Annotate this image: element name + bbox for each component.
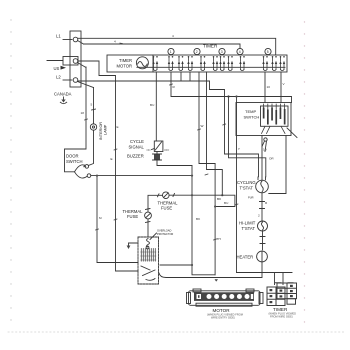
contact below temp xyxy=(264,138,267,141)
svg-text:DOOR: DOOR xyxy=(66,154,79,159)
terminal N xyxy=(73,59,78,64)
svg-text:1: 1 xyxy=(170,50,172,54)
wire mid drop b xyxy=(207,72,223,195)
svg-text:HEATER: HEATER xyxy=(237,255,254,260)
wire timer drop to temp loop xyxy=(171,72,292,103)
thermal fuse 1 xyxy=(145,212,152,219)
svg-text:FROM WIRE SIDE): FROM WIRE SIDE) xyxy=(270,314,293,318)
svg-text:PUR: PUR xyxy=(248,196,254,200)
svg-text:Y: Y xyxy=(238,147,240,151)
door switch S1 xyxy=(85,165,89,169)
wire tf1 up xyxy=(148,195,163,212)
wire N to door switch xyxy=(65,67,87,172)
svg-text:HI-LIMIT: HI-LIMIT xyxy=(239,221,256,226)
cycling tstat xyxy=(256,180,269,193)
terminal L1 xyxy=(73,37,78,42)
timer connector plug xyxy=(267,283,297,306)
svg-text:4: 4 xyxy=(172,34,174,38)
svg-text:SIGNAL: SIGNAL xyxy=(129,145,145,150)
svg-text:WIRE ENTRY SIDE): WIRE ENTRY SIDE) xyxy=(211,315,235,319)
svg-text:PROTECTOR: PROTECTOR xyxy=(157,232,173,236)
svg-text:FUSE: FUSE xyxy=(127,214,138,219)
ground xyxy=(129,243,139,246)
svg-text:T'STAT: T'STAT xyxy=(242,226,256,231)
terminal L2 xyxy=(73,78,78,83)
svg-text:CANADA: CANADA xyxy=(54,92,72,97)
wire mid riser xyxy=(214,164,216,275)
svg-text:L1: L1 xyxy=(56,34,61,39)
svg-text:TH: TH xyxy=(217,237,221,241)
svg-text:OFF: OFF xyxy=(164,148,170,152)
wire L1 lead xyxy=(63,39,72,41)
wire motor right riser xyxy=(192,166,215,275)
wire mid drop a xyxy=(199,72,215,164)
motor box dashed xyxy=(138,237,159,284)
svg-text:10: 10 xyxy=(267,85,271,89)
wire cycling feed 2 xyxy=(229,97,266,177)
wire temp out left xyxy=(261,136,263,181)
L2 switch blade xyxy=(78,82,94,88)
buzzer B1 xyxy=(154,141,163,152)
svg-text:5: 5 xyxy=(91,103,93,107)
heater xyxy=(257,251,268,262)
wire second bus xyxy=(84,44,241,48)
centrifugal switch xyxy=(141,266,155,280)
svg-text:SWITCH: SWITCH xyxy=(66,159,83,164)
circled terminal 2 xyxy=(194,48,200,54)
terminal block TB1 xyxy=(70,31,81,87)
svg-text:18: 18 xyxy=(81,111,85,115)
hi-limit tstat xyxy=(258,221,268,231)
svg-text:TEMP: TEMP xyxy=(245,109,256,114)
svg-text:10: 10 xyxy=(263,148,267,152)
wire timer tap L2 xyxy=(180,72,182,81)
svg-text:LAMP: LAMP xyxy=(103,124,107,135)
svg-text:3: 3 xyxy=(221,50,223,54)
wire neutral run E xyxy=(78,61,138,271)
svg-text:US: US xyxy=(54,66,60,71)
timer box xyxy=(107,55,287,72)
wire buzzer return xyxy=(157,152,192,166)
svg-text:TIMER: TIMER xyxy=(203,44,218,49)
timer motor symbol xyxy=(136,57,148,69)
svg-text:SWITCH: SWITCH xyxy=(244,115,260,120)
svg-text:FUSE: FUSE xyxy=(161,206,172,211)
margin dotted line bottom xyxy=(8,331,344,333)
svg-text:MOTOR: MOTOR xyxy=(213,308,231,313)
svg-text:CYCLE: CYCLE xyxy=(130,139,144,144)
wire temp feed 2 xyxy=(280,72,282,103)
svg-text:ON: ON xyxy=(147,148,151,152)
svg-text:2: 2 xyxy=(196,50,198,54)
interior lamp xyxy=(90,124,96,130)
temp switch pointer xyxy=(287,128,297,138)
circled terminal 5 xyxy=(265,48,271,54)
svg-text:BU: BU xyxy=(224,201,228,205)
svg-text:4: 4 xyxy=(114,40,116,44)
heater return marker xyxy=(215,279,219,281)
svg-text:4: 4 xyxy=(239,50,241,54)
L1 switch blade xyxy=(78,41,84,45)
svg-text:W: W xyxy=(201,124,204,128)
svg-text:E: E xyxy=(117,125,119,129)
svg-text:BUZZER: BUZZER xyxy=(127,154,144,159)
svg-text:T'STAT: T'STAT xyxy=(240,186,254,191)
motor windings xyxy=(141,249,155,262)
wire L1 bus xyxy=(78,38,276,55)
svg-text:TIMER: TIMER xyxy=(273,307,288,312)
wire N lead xyxy=(47,60,63,62)
svg-text:MOTOR: MOTOR xyxy=(117,64,133,69)
N switch blade xyxy=(78,63,87,68)
wire temp out right xyxy=(269,136,286,194)
overload protector xyxy=(147,239,150,248)
svg-text:5: 5 xyxy=(267,50,269,54)
timer contacts xyxy=(152,56,158,71)
wire tstat chain xyxy=(261,193,263,221)
temp switch box xyxy=(236,103,291,136)
svg-text:OR: OR xyxy=(269,157,274,161)
svg-text:TIMER: TIMER xyxy=(119,58,132,63)
timer connector stubs xyxy=(237,273,293,285)
svg-text:CYCLING: CYCLING xyxy=(237,180,256,185)
timer internal rail xyxy=(137,66,285,68)
wire tf2 right xyxy=(169,195,235,206)
margin dots right xyxy=(304,21,305,322)
svg-text:M: M xyxy=(99,216,102,220)
wire L2 heater run xyxy=(78,81,259,177)
wire tf1 down xyxy=(147,219,149,236)
circled terminal 4 xyxy=(237,48,243,54)
wire heater return xyxy=(159,262,262,278)
svg-text:E: E xyxy=(111,157,113,161)
temp switch contacts xyxy=(261,106,289,126)
wire temp feed 1 xyxy=(264,72,266,103)
margin dots left xyxy=(10,19,11,320)
canada ground symbol xyxy=(63,97,65,100)
motor connector plug xyxy=(189,291,261,306)
wire lamp to door switch xyxy=(88,130,93,165)
wire ticks and labels xyxy=(111,85,240,241)
neutral box xyxy=(63,57,78,66)
circled terminal 3 xyxy=(219,48,225,54)
svg-text:L2: L2 xyxy=(56,75,61,80)
svg-text:2: 2 xyxy=(258,214,260,218)
wire L2 lead xyxy=(63,79,72,81)
wire buzzer drop xyxy=(155,72,157,141)
circled terminal 1 xyxy=(168,48,174,54)
wire timer conn feed xyxy=(236,97,238,273)
wire hi-limit to heater xyxy=(262,231,264,250)
svg-text:BU: BU xyxy=(150,103,154,107)
wire door switch out xyxy=(91,175,192,177)
wire lamp branch xyxy=(93,88,95,124)
thermal fuse 2 xyxy=(163,192,170,199)
